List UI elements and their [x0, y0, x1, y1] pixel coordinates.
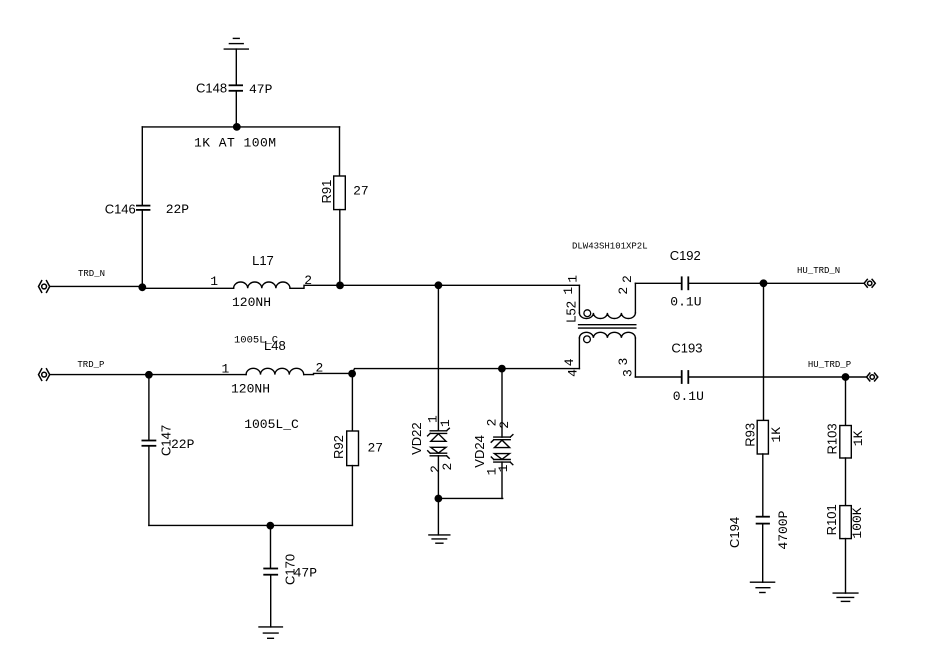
- wire: R103 drop from HU_TRD_P: [845, 377, 847, 426]
- diode VD22 (bidirectional TVS): [428, 428, 450, 458]
- wire: L48 to R92 node: [304, 373, 352, 374]
- ground (inverted, above C148): [224, 38, 248, 49]
- node VD22 / VD24 tie: [435, 495, 443, 503]
- svg-text:VD24: VD24: [472, 435, 487, 468]
- wire: VD22 to ground: [437, 456, 439, 535]
- transformer L52 primary winding: [579, 313, 635, 319]
- svg-text:HU_TRD_N: HU_TRD_N: [797, 266, 840, 276]
- resistor R101: [840, 506, 852, 539]
- wire: R93 drop from HU_TRD_N: [763, 283, 765, 420]
- svg-text:C193: C193: [671, 340, 702, 355]
- svg-text:1K: 1K: [769, 427, 784, 443]
- svg-text:3: 3: [616, 358, 631, 366]
- svg-text:C148: C148: [196, 81, 227, 96]
- svg-text:TRD_P: TRD_P: [77, 360, 104, 370]
- resistor R103: [840, 426, 852, 459]
- wire: C192 to HU_TRD_N port: [689, 282, 864, 284]
- transformer core: [579, 325, 636, 328]
- node TRD_P / R92 (jog): [348, 370, 356, 378]
- wire: C194 to ground: [762, 524, 764, 582]
- wire: C193 to HU_TRD_P port: [689, 376, 867, 378]
- node TRD_P / C147: [145, 371, 153, 379]
- resistor R92: [347, 431, 359, 466]
- wire: bottom-left rail: [149, 524, 353, 526]
- capacitor C147: [142, 441, 155, 446]
- svg-text:R91: R91: [319, 180, 334, 204]
- svg-text:27: 27: [368, 441, 384, 456]
- node TRD_N / R91: [336, 282, 344, 290]
- resistor R91: [334, 176, 346, 210]
- svg-text:2: 2: [616, 287, 631, 295]
- wire: C170 to ground: [270, 575, 272, 627]
- port HU_TRD_P: [867, 373, 878, 381]
- svg-text:0.1U: 0.1U: [673, 389, 704, 404]
- polarity dot primary: [584, 310, 591, 317]
- wire: transformer pin3 corner: [634, 338, 636, 377]
- svg-text:1: 1: [222, 362, 230, 377]
- node bottom rail / C170: [266, 522, 274, 530]
- svg-text:120NH: 120NH: [231, 382, 270, 397]
- svg-text:2: 2: [497, 421, 512, 429]
- polarity dot secondary: [584, 336, 591, 343]
- svg-text:R101: R101: [824, 504, 839, 535]
- wire: VD22 drop from TRD_N: [437, 285, 439, 430]
- svg-text:R103: R103: [825, 423, 840, 454]
- svg-text:27: 27: [353, 184, 369, 199]
- svg-text:TRD_N: TRD_N: [78, 269, 105, 279]
- wire: C147 to bottom rail: [148, 446, 150, 525]
- capacitor C192: [682, 277, 689, 289]
- svg-text:2: 2: [620, 275, 635, 283]
- transformer L52 secondary winding: [579, 332, 635, 338]
- svg-text:DLW43SH101XP2L: DLW43SH101XP2L: [572, 242, 648, 252]
- wire: pin2 to C192: [635, 282, 681, 284]
- svg-text:R92: R92: [331, 435, 346, 459]
- port HU_TRD_N: [864, 279, 875, 287]
- svg-text:1: 1: [210, 274, 218, 289]
- svg-text:2: 2: [440, 463, 455, 471]
- ground (below C194): [751, 582, 775, 592]
- capacitor C170: [264, 569, 277, 575]
- wire: tie to VD24: [438, 497, 502, 499]
- wire: TRD_N junction to L17 pin1: [142, 287, 233, 289]
- node HU_TRD_P / R103: [842, 373, 850, 381]
- wire: TRD_P port to L48: [50, 374, 246, 376]
- svg-text:1: 1: [565, 275, 580, 283]
- svg-text:C146: C146: [105, 201, 136, 216]
- wire: transformer pin1 corner: [578, 285, 580, 313]
- node TRD_N / C146: [138, 283, 146, 291]
- svg-text:1K AT 100M: 1K AT 100M: [194, 136, 277, 151]
- capacitor C194: [757, 517, 769, 524]
- wire: top ground to C148: [235, 49, 237, 85]
- wire: L17 to transformer corner: [290, 285, 579, 288]
- wire: TRD_N port to L17: [50, 285, 142, 287]
- ground (below VD22): [429, 535, 450, 543]
- svg-text:3: 3: [620, 369, 635, 377]
- capacitor C146: [137, 206, 150, 210]
- wire: top horizontal rail: [142, 126, 339, 128]
- wire: transformer pin4 corner: [578, 338, 580, 369]
- capacitor C193: [682, 371, 689, 383]
- wire: node to C170: [270, 525, 272, 568]
- wire: R101 to ground: [845, 539, 847, 594]
- ground (below R101): [833, 593, 858, 601]
- wire: top rail down to C146: [141, 127, 143, 205]
- wire: R92 drop from TRD_P: [351, 374, 353, 431]
- inductor L17: [234, 282, 290, 288]
- node HU_TRD_N / R93: [760, 279, 768, 287]
- wire: VD24 to tie: [501, 462, 503, 498]
- port TRD_N: [39, 281, 50, 293]
- svg-text:120NH: 120NH: [232, 295, 271, 310]
- node junction top rail: [233, 123, 241, 131]
- wire: transformer pin2 corner: [634, 283, 636, 313]
- svg-text:1: 1: [438, 419, 453, 427]
- wire: R93 to C194: [762, 454, 764, 517]
- wire: C147 drop from TRD_P: [148, 375, 150, 441]
- svg-text:2: 2: [316, 361, 324, 376]
- svg-text:R93: R93: [742, 423, 757, 447]
- svg-text:22P: 22P: [171, 437, 195, 452]
- wire: R91 to TRD_N row: [339, 210, 341, 286]
- svg-text:L17: L17: [252, 253, 274, 268]
- svg-text:100K: 100K: [850, 507, 865, 538]
- svg-text:C194: C194: [727, 517, 742, 548]
- svg-text:C192: C192: [670, 248, 701, 263]
- ground (below C170): [259, 627, 282, 638]
- svg-text:4: 4: [565, 369, 580, 377]
- diode VD24 (bidirectional TVS): [491, 435, 513, 465]
- svg-text:L48: L48: [264, 338, 286, 353]
- svg-text:22P: 22P: [166, 202, 190, 217]
- resistor R93: [757, 420, 768, 454]
- svg-text:4700P: 4700P: [776, 510, 791, 549]
- svg-text:47P: 47P: [294, 566, 318, 581]
- svg-text:L52: L52: [564, 301, 579, 323]
- wire: C148 to node: [235, 91, 237, 127]
- svg-text:47P: 47P: [249, 82, 273, 97]
- node TRD_P / VD24: [498, 365, 506, 373]
- svg-text:2: 2: [304, 273, 312, 288]
- wire: pin3 to C193: [635, 376, 681, 378]
- wire: top rail down to R91: [339, 127, 341, 176]
- svg-text:HU_TRD_P: HU_TRD_P: [808, 360, 851, 370]
- svg-text:1K: 1K: [851, 430, 866, 446]
- port TRD_P: [39, 369, 50, 381]
- wire: R92 to bottom rail: [351, 466, 353, 526]
- inductor L48: [246, 368, 304, 374]
- svg-text:0.1U: 0.1U: [670, 294, 701, 309]
- svg-text:1005L_C: 1005L_C: [244, 417, 299, 432]
- svg-text:4: 4: [562, 358, 577, 366]
- wire: R103 to R101: [845, 458, 847, 506]
- svg-text:VD22: VD22: [409, 422, 424, 455]
- wire: jog up then right to transformer pin4: [352, 369, 579, 374]
- wire: VD24 drop: [501, 369, 503, 438]
- svg-text:1: 1: [561, 287, 576, 295]
- capacitor C148: [230, 85, 243, 91]
- wire: C146 to TRD_N row: [141, 210, 143, 287]
- svg-text:1: 1: [496, 464, 511, 472]
- node TRD_N / VD22: [435, 281, 443, 289]
